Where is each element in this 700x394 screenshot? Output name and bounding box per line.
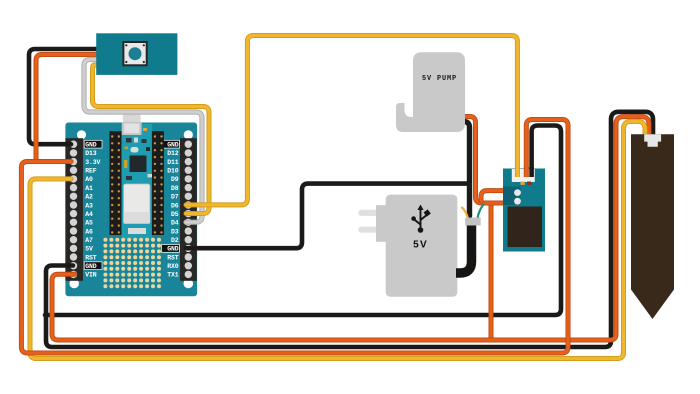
svg-text:D13: D13 bbox=[85, 150, 97, 157]
frayed strand teal bbox=[478, 205, 484, 219]
svg-text:A2: A2 bbox=[85, 194, 93, 201]
svg-text:D7: D7 bbox=[171, 194, 179, 201]
wire: button to D5 (yellow) bbox=[93, 65, 210, 214]
wire: VIN to soil-probe (orange bottom bus) bbox=[52, 117, 649, 340]
svg-text:D9: D9 bbox=[171, 176, 179, 183]
soil moisture sensor module bbox=[503, 169, 545, 252]
svg-text:RST: RST bbox=[167, 254, 179, 261]
wire: GND (right) to USB cable junction (black) bbox=[186, 184, 470, 249]
pin labels left column bbox=[84, 140, 102, 278]
wire: orange branch from sensor terminal2 down to VIN bus bbox=[489, 205, 494, 340]
pin labels right column bbox=[162, 140, 180, 278]
svg-text:D4: D4 bbox=[171, 220, 179, 227]
svg-text:A1: A1 bbox=[85, 185, 93, 192]
wire: button to GND (black) bbox=[29, 49, 100, 144]
svg-text:D6: D6 bbox=[171, 202, 179, 209]
svg-text:VIN: VIN bbox=[85, 272, 97, 279]
svg-text:D12: D12 bbox=[167, 150, 179, 157]
svg-text:D3: D3 bbox=[171, 228, 179, 235]
wire: button to 3.3V (orange) bbox=[36, 55, 100, 162]
wire: A0 to soil-probe (yellow bottom bus) bbox=[30, 121, 645, 358]
svg-text:RST: RST bbox=[85, 254, 97, 261]
prototyping hole grid bbox=[103, 238, 161, 288]
svg-text:D5: D5 bbox=[171, 211, 179, 218]
svg-text:A5: A5 bbox=[85, 220, 93, 227]
wire: D6 to sensor signal (yellow) bbox=[186, 36, 517, 205]
cable junction connector bbox=[465, 218, 481, 226]
soil moisture probe spike bbox=[631, 134, 674, 319]
svg-text:A3: A3 bbox=[85, 202, 93, 209]
Arduino Nano 33 IoT module bbox=[110, 112, 164, 240]
wire: pump black lead down to cable junction bbox=[461, 122, 470, 217]
push-button breakout module bbox=[96, 33, 177, 75]
wire: sensor terminal1 elbow (orange) bbox=[481, 191, 506, 201]
svg-text:GND: GND bbox=[167, 246, 179, 253]
svg-text:D8: D8 bbox=[171, 185, 179, 192]
wire: pump orange lead to sensor terminal bbox=[461, 117, 506, 204]
sensor wire tips into connector (yellow, orange, black) bbox=[515, 167, 520, 177]
svg-text:D11: D11 bbox=[167, 159, 179, 166]
svg-text:5V PUMP: 5V PUMP bbox=[422, 75, 457, 83]
svg-text:A4: A4 bbox=[85, 211, 93, 218]
wire: GND to soil-probe (black bottom bus) bbox=[46, 112, 653, 347]
svg-text:D10: D10 bbox=[167, 168, 179, 175]
svg-text:A7: A7 bbox=[85, 237, 93, 244]
wire: 3.3V to sensor VCC (orange bus via right side) bbox=[21, 120, 568, 354]
svg-text:GND: GND bbox=[85, 263, 97, 270]
5V USB power supply bbox=[358, 195, 457, 297]
svg-text:D2: D2 bbox=[171, 237, 179, 244]
svg-text:3.3V: 3.3V bbox=[85, 159, 100, 166]
svg-text:GND: GND bbox=[167, 142, 179, 149]
thick USB cable from power supply bbox=[456, 224, 472, 273]
svg-text:A6: A6 bbox=[85, 228, 93, 235]
frayed strand yellow bbox=[462, 208, 468, 219]
svg-text:5V: 5V bbox=[85, 246, 93, 253]
svg-text:A0: A0 bbox=[85, 176, 93, 183]
svg-text:5V: 5V bbox=[413, 240, 428, 251]
wire: button to D4 (gray) bbox=[84, 60, 202, 223]
svg-text:GND: GND bbox=[85, 142, 97, 149]
wire: sensor GND link (black, sensor top to GND rail) bbox=[45, 126, 561, 316]
probe connector tab bbox=[644, 134, 661, 147]
Arduino Nano screw-terminal carrier board bbox=[65, 123, 197, 297]
5V pump bbox=[396, 52, 465, 132]
svg-text:RX0: RX0 bbox=[167, 263, 179, 270]
svg-text:REF: REF bbox=[85, 168, 97, 175]
svg-text:TX1: TX1 bbox=[167, 272, 179, 279]
